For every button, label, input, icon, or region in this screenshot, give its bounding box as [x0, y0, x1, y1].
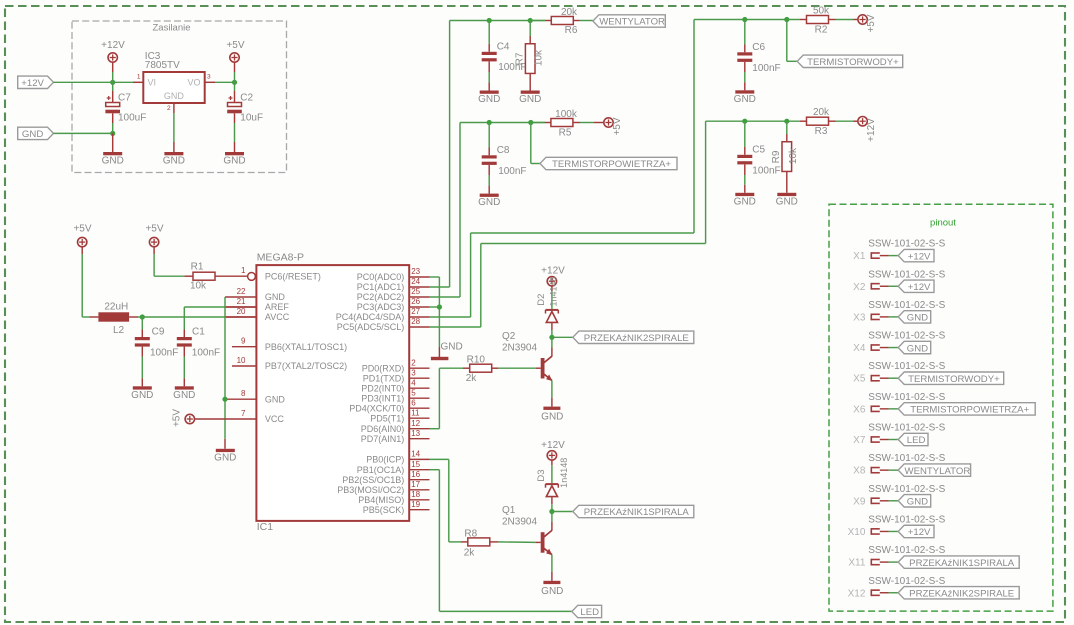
- svg-text:PD5(T1): PD5(T1): [370, 413, 404, 423]
- svg-text:WENTYLATOR: WENTYLATOR: [905, 466, 971, 477]
- wire PB1 to LED flag: [430, 470, 572, 612]
- resistor R5 100k: [551, 109, 578, 139]
- svg-text:+5V: +5V: [866, 14, 877, 32]
- svg-text:TERMISTORPOWIETRZA+: TERMISTORPOWIETRZA+: [552, 159, 671, 170]
- svg-text:20k: 20k: [561, 7, 578, 18]
- svg-text:SSW-101-02-S-S: SSW-101-02-S-S: [868, 576, 945, 587]
- pin 25 PC2(ADC2): [357, 287, 430, 302]
- node R5 left: [528, 120, 533, 125]
- flag PRZEKAzNIK1SPIRALA: [573, 505, 694, 518]
- pin 9 PB6(XTAL1/TOSC1): [232, 337, 347, 352]
- svg-text:13: 13: [411, 429, 420, 438]
- ground below C2: [223, 152, 245, 167]
- node +12V junction: [110, 80, 115, 85]
- svg-text:+12V: +12V: [908, 282, 931, 293]
- wire X4 to flag: [880, 347, 898, 349]
- wire supply to D3: [551, 460, 553, 483]
- svg-text:15: 15: [411, 460, 420, 469]
- svg-text:GND: GND: [519, 94, 541, 105]
- wire PC2 to net: [430, 296, 461, 298]
- wire PC1 net horizontal: [450, 20, 546, 22]
- svg-text:TERMISTORPOWIETRZA+: TERMISTORPOWIETRZA+: [910, 405, 1029, 416]
- flag GND at X3: [898, 311, 931, 324]
- svg-text:GND: GND: [223, 156, 245, 167]
- wire D2 to collector node: [551, 323, 553, 337]
- svg-text:22uH: 22uH: [104, 302, 128, 313]
- svg-text:C7: C7: [118, 93, 131, 104]
- capacitor C5 100nF: [737, 144, 780, 176]
- svg-text:GND: GND: [214, 452, 236, 463]
- svg-text:AVCC: AVCC: [265, 312, 290, 322]
- svg-text:GND: GND: [478, 94, 500, 105]
- svg-text:+12V: +12V: [541, 440, 565, 451]
- connector X10 SSW-101-02-S-S: [848, 514, 946, 538]
- svg-text:LED: LED: [907, 435, 926, 446]
- wire X5 to flag: [880, 377, 898, 379]
- inductor L2 22uH: [98, 302, 129, 337]
- svg-text:R9: R9: [771, 150, 782, 163]
- ground below C6: [734, 90, 756, 105]
- wire C8 to ground: [488, 165, 490, 194]
- svg-text:SSW-101-02-S-S: SSW-101-02-S-S: [868, 514, 945, 525]
- wire PC0 to GND net: [430, 277, 440, 347]
- svg-text:GND: GND: [163, 156, 185, 167]
- svg-text:7: 7: [241, 409, 246, 418]
- svg-text:SSW-101-02-S-S: SSW-101-02-S-S: [868, 269, 945, 280]
- wire PC3 to node: [430, 306, 440, 308]
- wire PC1 net vertical: [449, 21, 451, 288]
- supply +5V at PC6 pullup: [145, 223, 163, 247]
- wire X2 to flag: [880, 285, 898, 287]
- wire AREF to C1: [184, 307, 256, 337]
- svg-text:PD0(RXD): PD0(RXD): [362, 363, 405, 373]
- svg-text:GND: GND: [164, 91, 185, 101]
- svg-text:X10: X10: [848, 527, 866, 538]
- ground below IC3: [163, 152, 185, 167]
- svg-text:GND: GND: [776, 196, 798, 207]
- pin 1 PC6(/RESET): [241, 266, 321, 281]
- supply +12V at R3: [858, 117, 877, 142]
- svg-text:PC2(ADC2): PC2(ADC2): [357, 292, 405, 302]
- ground below Q1: [541, 581, 563, 597]
- svg-text:D2: D2: [536, 294, 547, 306]
- svg-text:GND: GND: [907, 343, 928, 354]
- wire +5V node to C2: [234, 82, 236, 102]
- svg-text:C4: C4: [497, 41, 510, 52]
- wire node to PRZEKAZNIK2 flag: [552, 336, 573, 338]
- svg-text:SSW-101-02-S-S: SSW-101-02-S-S: [868, 453, 945, 464]
- svg-text:+12V: +12V: [21, 78, 44, 89]
- flag +12V at X1: [898, 249, 934, 262]
- wire PC4 net top horizontal: [694, 19, 807, 21]
- wire +12V node to C7: [112, 82, 114, 102]
- wire node to TERMISTORWODY flag: [787, 20, 797, 62]
- wire supply to L2: [82, 247, 98, 318]
- svg-text:10k: 10k: [534, 49, 545, 66]
- resistor R2 50k: [807, 5, 831, 35]
- svg-text:X2: X2: [853, 282, 866, 293]
- svg-text:PB3(MOSI/OC2): PB3(MOSI/OC2): [337, 485, 404, 495]
- node R7 top: [528, 18, 533, 23]
- svg-text:X1: X1: [853, 251, 866, 262]
- svg-text:PB7(XTAL2/TOSC2): PB7(XTAL2/TOSC2): [265, 361, 347, 371]
- wire node to R6: [530, 20, 551, 22]
- wire PC1 to net: [430, 286, 450, 288]
- wire PB0 to R8: [430, 459, 468, 542]
- ground below C4: [478, 91, 500, 106]
- wire R3 to supply: [829, 120, 859, 122]
- svg-text:X8: X8: [853, 466, 866, 477]
- flag GND at X4: [898, 341, 931, 354]
- svg-text:Q2: Q2: [502, 331, 516, 342]
- svg-text:2N3904: 2N3904: [502, 517, 537, 528]
- svg-text:GND: GND: [907, 497, 928, 508]
- wire node to Q2 collector: [551, 337, 553, 356]
- resistor R7 10k: [515, 44, 545, 74]
- svg-text:PRZEKAźNIK2SPIRALE: PRZEKAźNIK2SPIRALE: [584, 333, 689, 344]
- svg-text:R6: R6: [565, 25, 578, 36]
- svg-text:PC6(/RESET): PC6(/RESET): [265, 271, 321, 281]
- resistor R10 2k: [466, 354, 492, 384]
- supply +12V P1: [101, 40, 125, 62]
- svg-text:PB1(OC1A): PB1(OC1A): [357, 465, 405, 475]
- svg-text:GND: GND: [734, 94, 756, 105]
- svg-text:PD3(INT1): PD3(INT1): [361, 393, 404, 403]
- svg-text:GND: GND: [102, 156, 124, 167]
- svg-text:D3: D3: [536, 469, 547, 481]
- resistor R3 20k: [807, 107, 831, 137]
- svg-text:X3: X3: [853, 312, 866, 323]
- svg-text:1n4148: 1n4148: [549, 276, 559, 306]
- svg-text:100nF: 100nF: [192, 348, 220, 359]
- svg-text:X5: X5: [853, 374, 866, 385]
- svg-text:SSW-101-02-S-S: SSW-101-02-S-S: [868, 361, 945, 372]
- pin 24 PC1(ADC1): [357, 277, 430, 292]
- svg-text:VCC: VCC: [265, 414, 285, 424]
- svg-text:18: 18: [411, 490, 420, 499]
- wire node to C6: [744, 20, 746, 53]
- wire +12V node to VI pin: [113, 81, 144, 83]
- pin 28 PC5(ADC5/SCL): [337, 317, 430, 332]
- wire PC5 net top horizontal: [706, 120, 807, 122]
- node R9 top: [784, 119, 789, 124]
- flag PRZEKAźNIK2SPIRALE at X12: [898, 587, 1019, 600]
- svg-text:SSW-101-02-S-S: SSW-101-02-S-S: [868, 545, 945, 556]
- supply +5V at VCC: [171, 409, 194, 427]
- svg-text:50k: 50k: [813, 5, 830, 16]
- wire X3 to flag: [880, 316, 898, 318]
- svg-text:PC1(ADC1): PC1(ADC1): [357, 282, 405, 292]
- svg-text:14: 14: [411, 450, 420, 459]
- svg-text:3: 3: [411, 368, 416, 377]
- flag +12V at X2: [898, 280, 934, 293]
- wire R9 to ground: [786, 172, 788, 193]
- svg-text:PRZEKAźNIK2SPIRALE: PRZEKAźNIK2SPIRALE: [909, 588, 1014, 599]
- wire node to C9: [141, 317, 143, 337]
- svg-text:2N3904: 2N3904: [502, 342, 537, 353]
- svg-text:8: 8: [241, 389, 246, 398]
- flag WENTYLATOR: [593, 15, 665, 28]
- svg-text:GND: GND: [734, 196, 756, 207]
- wire C4 to ground: [488, 61, 490, 90]
- svg-text:GND: GND: [541, 586, 563, 597]
- svg-text:X7: X7: [853, 435, 866, 446]
- svg-text:C2: C2: [240, 93, 253, 104]
- wire X9 to flag: [880, 500, 898, 502]
- svg-text:PRZEKAźNIK1SPIRALA: PRZEKAźNIK1SPIRALA: [909, 558, 1015, 569]
- wire to ground below IC: [224, 439, 226, 449]
- wire PC4 net vertical near IC: [470, 233, 472, 317]
- svg-text:X4: X4: [853, 343, 866, 354]
- svg-text:2k: 2k: [466, 373, 478, 384]
- resistor R6 20k: [551, 7, 578, 36]
- svg-text:C1: C1: [192, 326, 205, 337]
- svg-text:L2: L2: [113, 325, 125, 336]
- wire C6 to ground: [744, 62, 746, 90]
- svg-text:C5: C5: [752, 144, 765, 155]
- svg-text:SSW-101-02-S-S: SSW-101-02-S-S: [868, 484, 945, 495]
- supply +5V P2: [226, 40, 244, 62]
- svg-text:20: 20: [237, 307, 246, 316]
- pin 22 GND: [225, 287, 285, 302]
- node C4 top: [487, 18, 492, 23]
- svg-text:PB2(SS/OC1B): PB2(SS/OC1B): [342, 475, 404, 485]
- svg-text:GND: GND: [265, 292, 286, 302]
- svg-text:C8: C8: [497, 145, 510, 156]
- svg-text:PD1(TXD): PD1(TXD): [363, 373, 405, 383]
- svg-text:100nF: 100nF: [752, 165, 780, 176]
- frame Zasilanie: [72, 21, 287, 173]
- svg-text:LED: LED: [580, 607, 599, 618]
- resistor R1 10k: [190, 261, 215, 291]
- svg-text:PC5(ADC5/SCL): PC5(ADC5/SCL): [337, 322, 405, 332]
- flag WENTYLATOR at X8: [898, 464, 970, 477]
- capacitor C7 100uF: [105, 93, 146, 124]
- wire PC2 net horizontal: [460, 122, 545, 124]
- svg-text:2k: 2k: [464, 548, 476, 559]
- svg-text:X6: X6: [853, 404, 866, 415]
- svg-text:X9: X9: [853, 496, 866, 507]
- svg-text:+12V: +12V: [866, 118, 877, 142]
- pin 15 PB1(OC1A): [357, 460, 430, 475]
- node Q1 collector: [549, 509, 554, 514]
- svg-text:PD4(XCK/T0): PD4(XCK/T0): [349, 403, 404, 413]
- capacitor C1 100nF: [177, 326, 220, 358]
- svg-text:R10: R10: [467, 354, 486, 365]
- node C8 top: [487, 120, 492, 125]
- pin 5 PD3(INT1): [361, 388, 429, 403]
- svg-text:GND: GND: [541, 412, 563, 423]
- pin 8 GND: [225, 389, 285, 404]
- svg-text:SSW-101-02-S-S: SSW-101-02-S-S: [868, 300, 945, 311]
- svg-text:21: 21: [237, 297, 246, 306]
- pin 13 PD7(AIN1): [361, 429, 430, 444]
- wire node to TERMISTORPOWIETRZA flag: [531, 123, 540, 164]
- pin 4 PD2(INT0): [361, 378, 429, 393]
- svg-text:pinout: pinout: [930, 218, 956, 229]
- pin 11 PD5(T1): [370, 408, 429, 423]
- svg-text:20k: 20k: [813, 107, 830, 118]
- wire PC4 to net: [430, 316, 471, 318]
- svg-text:PC0(ADC0): PC0(ADC0): [357, 272, 405, 282]
- wire PC5 to net: [430, 326, 481, 328]
- connector X8 SSW-101-02-S-S: [853, 453, 945, 477]
- pin 14 PB0(ICP): [366, 450, 429, 465]
- svg-text:PD7(AIN1): PD7(AIN1): [361, 434, 405, 444]
- wire X1 to flag: [880, 255, 898, 257]
- svg-text:100uF: 100uF: [118, 113, 146, 124]
- ground below C8: [478, 194, 500, 209]
- wire R2 to supply: [829, 19, 859, 21]
- svg-text:SSW-101-02-S-S: SSW-101-02-S-S: [868, 423, 945, 434]
- wire PC2 net vertical: [459, 123, 461, 298]
- svg-text:+12V: +12V: [908, 527, 931, 538]
- ground below C1: [173, 386, 195, 401]
- wire IC3 GND pin to ground: [173, 103, 175, 152]
- svg-text:1: 1: [241, 266, 246, 275]
- diode D2 1n4148: [536, 276, 558, 322]
- svg-text:+12V: +12V: [908, 251, 931, 262]
- svg-text:16: 16: [411, 470, 420, 479]
- wire node to C8: [488, 123, 490, 156]
- flag TERMISTORPOWIETRZA+: [540, 157, 677, 170]
- svg-text:10k: 10k: [788, 147, 799, 164]
- connector X9 SSW-101-02-S-S: [853, 484, 945, 508]
- node PC3 GND junction: [437, 304, 442, 309]
- wire R10 to Q2 base: [492, 367, 541, 369]
- connector X2 SSW-101-02-S-S: [853, 269, 945, 293]
- connector X12 SSW-101-02-S-S: [848, 576, 946, 600]
- diode D3 1n4148: [536, 458, 569, 497]
- pin 6 PD4(XCK/T0): [349, 398, 429, 413]
- svg-text:6: 6: [411, 398, 416, 407]
- ground below IC1: [214, 449, 236, 464]
- svg-text:+5V: +5V: [226, 40, 244, 51]
- wire X6 to flag: [880, 408, 898, 410]
- wire GND pins vertical: [224, 297, 226, 439]
- svg-text:R3: R3: [815, 126, 828, 137]
- svg-text:VI: VI: [148, 77, 157, 87]
- svg-text:27: 27: [411, 307, 420, 316]
- svg-text:+5V: +5V: [612, 117, 623, 135]
- wire L2 to AVCC node: [129, 316, 142, 318]
- svg-text:WENTYLATOR: WENTYLATOR: [599, 17, 665, 28]
- svg-text:PD2(INT0): PD2(INT0): [361, 383, 404, 393]
- wire supply to D2: [551, 286, 553, 309]
- svg-text:GND: GND: [478, 197, 500, 208]
- svg-text:SSW-101-02-S-S: SSW-101-02-S-S: [868, 331, 945, 342]
- wire R8 to Q1 base: [490, 541, 541, 544]
- svg-text:PC4(ADC4/SDA): PC4(ADC4/SDA): [336, 312, 405, 322]
- flag PRZEKAzNIK2SPIRALE: [573, 331, 694, 344]
- svg-text:+12V: +12V: [101, 40, 125, 51]
- wire node to Q1 collector: [551, 512, 553, 531]
- svg-text:SSW-101-02-S-S: SSW-101-02-S-S: [868, 239, 945, 250]
- svg-text:7805TV: 7805TV: [145, 60, 180, 71]
- connector X6 SSW-101-02-S-S: [853, 392, 945, 416]
- svg-text:17: 17: [411, 480, 420, 489]
- svg-text:100nF: 100nF: [150, 348, 178, 359]
- svg-text:100k: 100k: [555, 109, 578, 120]
- transistor Q2 2N3904: [502, 331, 552, 381]
- wire supply to +12V node: [112, 62, 114, 82]
- svg-text:MEGA8-P: MEGA8-P: [257, 252, 304, 264]
- svg-text:GND: GND: [907, 313, 928, 324]
- svg-text:10k: 10k: [190, 280, 207, 291]
- svg-text:+12V: +12V: [541, 266, 565, 277]
- svg-text:Q1: Q1: [502, 505, 516, 516]
- svg-text:PB6(XTAL1/TOSC1): PB6(XTAL1/TOSC1): [265, 342, 347, 352]
- pin 18 PB4(MISO): [358, 490, 429, 505]
- wire R5 to supply: [573, 122, 604, 124]
- flag GND input: [18, 127, 54, 140]
- frame pinout: [829, 204, 1053, 611]
- connector X1 SSW-101-02-S-S: [853, 239, 945, 263]
- flag +12V at X10: [898, 525, 934, 538]
- wire X12 to flag: [880, 592, 898, 594]
- svg-text:PB5(SCK): PB5(SCK): [363, 505, 405, 515]
- wire GND flag to node: [54, 132, 113, 134]
- node C5 top: [742, 119, 747, 124]
- svg-text:PC3(ADC3): PC3(ADC3): [357, 302, 405, 312]
- svg-text:19: 19: [411, 500, 420, 509]
- svg-text:10: 10: [237, 356, 246, 365]
- pin 27 PC4(ADC4/SDA): [336, 307, 430, 322]
- flag LED: [572, 605, 602, 618]
- flag +12V input: [18, 76, 54, 89]
- pin 3 VO of IC3: [207, 74, 211, 81]
- capacitor C9 100nF: [135, 326, 179, 358]
- wire X10 to flag: [880, 530, 898, 532]
- connector X7 SSW-101-02-S-S: [853, 423, 945, 447]
- svg-text:X11: X11: [848, 558, 865, 569]
- wire node to R7: [529, 21, 531, 44]
- svg-text:R2: R2: [815, 25, 828, 36]
- wire node to ground: [438, 347, 440, 357]
- node Q2 collector: [549, 335, 554, 340]
- wire R6 to flag: [573, 20, 593, 22]
- svg-text:+5V: +5V: [145, 223, 163, 234]
- wire PC5 net horizontal run: [481, 243, 706, 245]
- flag LED at X7: [898, 433, 928, 446]
- svg-text:Zasilanie: Zasilanie: [152, 23, 190, 34]
- wire node to R5: [531, 122, 551, 124]
- svg-text:VO: VO: [187, 77, 200, 87]
- wire supply to VCC pin: [195, 418, 257, 420]
- capacitor C8 100nF: [482, 145, 527, 177]
- svg-text:IC1: IC1: [257, 521, 274, 533]
- pin 1 VI of IC3: [137, 74, 141, 81]
- wire node to C4: [488, 21, 490, 52]
- svg-text:24: 24: [411, 277, 420, 286]
- wire node to C5: [744, 121, 746, 155]
- svg-text:1n4148: 1n4148: [559, 458, 569, 488]
- svg-text:GND: GND: [22, 129, 43, 140]
- pin 21 AREF: [225, 297, 289, 312]
- svg-text:22: 22: [237, 287, 246, 296]
- ground below R9: [776, 193, 798, 208]
- resistor R9 10k: [771, 142, 799, 172]
- svg-text:R7: R7: [515, 52, 526, 65]
- capacitor C2 10uF: [227, 93, 263, 124]
- wire C7 to GND node: [112, 113, 114, 133]
- svg-text:TERMISTORWODY+: TERMISTORWODY+: [807, 57, 899, 68]
- pin 10 PB7(XTAL2/TOSC2): [232, 356, 347, 371]
- svg-text:+5V: +5V: [171, 409, 182, 427]
- svg-text:2: 2: [411, 358, 416, 367]
- svg-text:2: 2: [167, 105, 171, 112]
- wire +12V flag to node: [54, 81, 113, 83]
